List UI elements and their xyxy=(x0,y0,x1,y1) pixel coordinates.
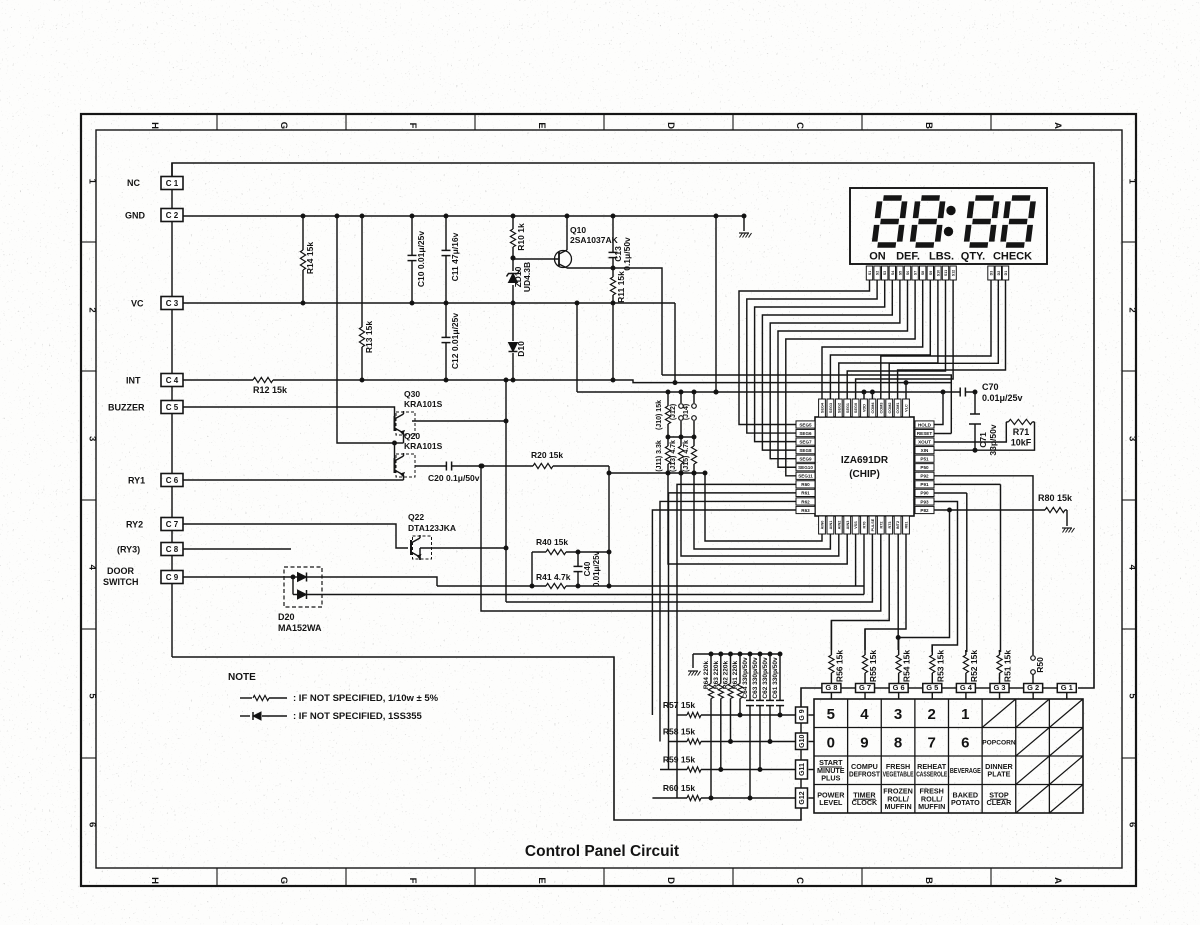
wire XT rail xyxy=(662,375,951,434)
label J12 xyxy=(670,404,677,420)
diode D20 bottom xyxy=(293,577,325,599)
wire S1 to SEG5 xyxy=(739,280,870,425)
keypad grid xyxy=(814,699,1083,813)
resistor R13 15k xyxy=(359,214,364,382)
wire BUZZER to Q30 xyxy=(183,407,395,416)
resistor R54 15k xyxy=(896,650,901,684)
wire VC drop to INT ext xyxy=(674,303,676,383)
label R61 220k xyxy=(732,661,739,690)
capacitor C11 xyxy=(442,214,451,305)
capacitor C63 330p xyxy=(756,654,764,770)
connector C3 xyxy=(161,297,183,310)
label C40 xyxy=(583,550,601,587)
label LBS. xyxy=(929,251,954,263)
resistor J10 15k xyxy=(665,392,670,437)
wire COM4 stub xyxy=(871,392,873,399)
ground R80 xyxy=(1062,528,1075,533)
label R14 15k xyxy=(305,242,315,274)
wire VC rail xyxy=(183,302,675,304)
key 9 xyxy=(860,734,868,751)
label R55 15k xyxy=(868,650,878,682)
wire Q22 to PULSE row xyxy=(505,421,507,602)
label R63 220k xyxy=(713,661,720,690)
capacitor C70 xyxy=(943,388,977,397)
label J10 xyxy=(656,400,663,430)
wire S3 to SEG7 xyxy=(755,280,885,442)
capacitor C10 xyxy=(408,214,417,305)
display digit 1 xyxy=(874,198,905,245)
ic IZA691DR body xyxy=(815,417,914,516)
label R12 15k xyxy=(253,385,288,395)
key 5 xyxy=(827,706,835,723)
label Q20 xyxy=(404,431,443,451)
wire INT rail extension xyxy=(613,380,951,385)
wire S2 to SEG6 xyxy=(747,280,877,433)
wire G4 grid stub xyxy=(965,693,967,700)
connector G5 xyxy=(923,683,942,693)
pin S10 xyxy=(935,266,941,280)
connector G8 xyxy=(822,683,841,693)
wire Q10 collector to rail xyxy=(613,268,662,375)
capacitor C71 xyxy=(969,392,981,452)
pin S4 xyxy=(889,266,895,280)
label J14 xyxy=(683,404,690,420)
ic top pins xyxy=(819,399,910,417)
resistor R52 15k xyxy=(963,650,968,684)
wire R81 row xyxy=(865,534,906,650)
ground GND rail end xyxy=(739,233,752,238)
key FRESH VEGETABLE xyxy=(883,762,914,779)
label C63 330p/50v xyxy=(752,657,759,699)
capacitor C12 xyxy=(442,303,451,382)
label QTY. xyxy=(961,251,985,263)
label D20 xyxy=(278,612,322,633)
pin S3 xyxy=(882,266,888,280)
wire R53 top xyxy=(931,645,933,650)
label R51 15k xyxy=(1003,650,1013,682)
capacitor C62 330p xyxy=(766,654,774,742)
wire R60 pin to row xyxy=(677,484,796,798)
capacitor C13 xyxy=(609,214,618,270)
pin S9 xyxy=(927,266,933,280)
wire R62 pin to row xyxy=(660,501,796,741)
ground array xyxy=(688,671,701,676)
wire D1 to COM1 xyxy=(898,280,1006,399)
key 1 xyxy=(961,706,969,723)
wire D20 bottom to R70 row xyxy=(325,594,864,596)
wire Q20 emitter to RY1 xyxy=(183,478,404,480)
connector C4 xyxy=(161,374,183,387)
key 3 xyxy=(894,706,902,723)
connector G7 xyxy=(856,683,875,693)
connector G10 xyxy=(796,733,808,750)
key STOP CLEAR xyxy=(987,790,1013,807)
resistor R53 15k xyxy=(930,650,935,684)
wire AIN1 xyxy=(692,471,830,549)
connector C2 xyxy=(161,209,183,222)
wire G1 grid stub xyxy=(1066,693,1068,700)
resistor R12 15k xyxy=(183,377,615,382)
label INT xyxy=(126,376,141,386)
wire array gnd stub xyxy=(692,654,694,668)
label CHECK xyxy=(993,251,1032,263)
resistor R11 15k xyxy=(610,268,615,380)
label R62 220k xyxy=(723,661,730,690)
label C62 330p/50v xyxy=(762,657,769,699)
key FRESH ROLL/ MUFFIN xyxy=(918,787,945,811)
pin S8 xyxy=(920,266,926,280)
pin S2 xyxy=(874,266,880,280)
wire VSS row xyxy=(578,584,864,588)
connector C5 xyxy=(161,401,183,414)
resistor R56 15k xyxy=(829,650,834,684)
wire VC to J rail xyxy=(575,301,579,392)
wire G2 grid stub xyxy=(1032,693,1034,700)
wire P82 to R54 xyxy=(896,510,949,640)
wire GND rail end stub xyxy=(742,214,746,231)
pin D2 xyxy=(995,266,1001,280)
wire S9 to SEG3 xyxy=(830,280,930,399)
wire D3 to COM3 xyxy=(881,280,991,399)
label R57 15k xyxy=(663,700,695,710)
display digit 2 xyxy=(912,198,943,245)
wire array top bus xyxy=(693,652,782,656)
wire R56 to R73 xyxy=(830,621,832,651)
label C71 xyxy=(978,424,998,455)
pin S5 xyxy=(897,266,903,280)
wire R55 to R81 xyxy=(864,629,866,650)
wire R54 top xyxy=(898,638,900,651)
border grid labels xyxy=(81,114,1138,886)
resistor R55 15k xyxy=(862,650,867,684)
label R80 15k xyxy=(1038,493,1073,503)
resistor J11 3.3k xyxy=(665,437,670,473)
label BUZZER xyxy=(108,403,145,413)
label Q30 xyxy=(404,389,443,409)
wire Q30 out xyxy=(412,378,508,423)
key 4 xyxy=(860,706,869,723)
label C64 330p/50v xyxy=(742,657,749,699)
wire S8 to SEG4 xyxy=(822,280,923,399)
diode D20 top xyxy=(291,573,325,582)
label C61 330p/50v xyxy=(772,657,779,699)
label R59 15k xyxy=(663,755,695,765)
pin S12 xyxy=(950,266,956,280)
wire HOLD xyxy=(934,392,943,425)
label C13 xyxy=(613,237,632,271)
label R53 15k xyxy=(935,650,945,682)
label R58 15k xyxy=(663,727,695,737)
wire G3 grid stub xyxy=(999,693,1001,700)
wire VDD stub xyxy=(863,392,865,399)
display digit 4 xyxy=(1003,198,1034,245)
capacitor C61 330p xyxy=(776,654,784,715)
wire G9-G10 link xyxy=(800,723,802,733)
connector C9 xyxy=(161,571,183,584)
resistor R61 220k xyxy=(737,654,742,715)
key 8 xyxy=(894,734,902,751)
label Q10 xyxy=(570,225,619,245)
wire G7 grid stub xyxy=(864,693,866,700)
note diode symbol xyxy=(240,712,287,720)
transistor Q20 KRA101S xyxy=(395,453,416,478)
pin S7 xyxy=(912,266,918,280)
wire G8 grid stub xyxy=(830,693,832,700)
wire C9 to D20 xyxy=(183,576,293,578)
label J15 xyxy=(683,440,690,472)
wire R51 top xyxy=(999,650,1001,652)
label NOTE xyxy=(228,672,256,683)
wire VLC stub xyxy=(905,383,907,399)
label R11 15k xyxy=(616,271,626,303)
connector G6 xyxy=(889,683,908,693)
wire S6 to SEG10 xyxy=(778,280,908,467)
key REHEAT CASSEROLE xyxy=(916,762,947,779)
wire AIN0 xyxy=(703,471,822,541)
connector G3 xyxy=(990,683,1009,693)
label R50 xyxy=(1035,657,1045,673)
resistor J13 4.7k xyxy=(678,437,683,473)
wire PULSE row xyxy=(506,534,872,602)
label R40 15k xyxy=(536,537,568,547)
label DOOR SWITCH xyxy=(103,566,139,587)
label C10 xyxy=(416,231,426,288)
label R64 220k xyxy=(703,661,710,690)
display box xyxy=(850,188,1047,264)
label R20 15k xyxy=(531,450,563,460)
wire R73 row xyxy=(831,534,889,650)
key COMPU DEFROST xyxy=(849,762,881,779)
title Control Panel Circuit xyxy=(525,843,679,860)
label GND xyxy=(125,211,146,221)
resistor R64 220k xyxy=(708,654,713,798)
label R41 4.7k xyxy=(536,572,571,582)
resistor R40 15k xyxy=(532,549,611,586)
diode D10 xyxy=(509,303,518,382)
label R56 15k xyxy=(834,650,844,682)
wire AIN3 xyxy=(666,471,847,564)
wire P92 to G2 xyxy=(934,476,1033,655)
wire bottom bus xyxy=(172,657,801,820)
label J11 xyxy=(656,440,663,472)
pin S1 xyxy=(866,266,872,280)
zener ZD10 xyxy=(507,256,520,305)
connector C6 xyxy=(161,474,183,487)
connector C7 xyxy=(161,518,183,531)
wire S5 to SEG9 xyxy=(770,280,900,459)
wire G9-G12 grid stubs xyxy=(809,715,815,798)
wire R61 pin to row xyxy=(669,493,797,770)
label R13 15k xyxy=(364,321,374,353)
capacitor C20 xyxy=(415,462,484,471)
border outer frame xyxy=(81,114,1136,886)
keypad blank diagonals xyxy=(982,699,1083,813)
key POPCORN xyxy=(982,739,1016,746)
label C11 xyxy=(450,232,460,281)
key START MINUTE PLUS xyxy=(817,758,845,782)
wire G6 grid stub xyxy=(898,693,900,700)
connector G4 xyxy=(956,683,975,693)
wire RY2 to Q22 base xyxy=(183,524,408,548)
resistor J15 4.7k xyxy=(691,437,696,473)
jumper J14 open xyxy=(692,392,697,437)
resistor R14 15k xyxy=(300,214,305,305)
wire J bottom rail xyxy=(609,471,705,475)
wire RY3 stub xyxy=(183,548,291,550)
label DEF. xyxy=(896,251,920,263)
wire GND to COM rail xyxy=(714,214,718,394)
ic bottom pins xyxy=(819,516,910,534)
label Q22 xyxy=(408,512,456,533)
wire D20 top to R41 row xyxy=(325,577,437,586)
label VC xyxy=(131,299,144,309)
label ZD10 UD4.3B xyxy=(513,262,532,292)
connector C8 xyxy=(161,543,183,556)
jumper R50 open xyxy=(1031,656,1036,684)
wire Q22 out xyxy=(420,546,508,560)
wire G10-G11 link xyxy=(800,750,802,761)
ic left pins xyxy=(796,421,815,514)
wire Q20 base xyxy=(394,443,396,458)
key 7 xyxy=(928,734,936,751)
resistor R51 15k xyxy=(997,650,1002,684)
resistor R62 220k xyxy=(728,654,733,742)
label (RY3) xyxy=(117,545,140,555)
wire G11-G12 link xyxy=(800,779,802,788)
resistor R60 15k row xyxy=(652,795,795,800)
transistor Q30 KRA101S xyxy=(395,411,416,436)
connector G1 xyxy=(1057,683,1076,693)
label D10 xyxy=(516,341,526,357)
label RY2 xyxy=(126,520,143,530)
ic right pins xyxy=(915,421,934,514)
wire P82 row xyxy=(934,508,1045,512)
wire R72 row xyxy=(479,464,881,611)
wire R52 top xyxy=(965,650,967,652)
wire COM/J rail xyxy=(577,390,945,394)
label C70 xyxy=(982,382,1023,403)
label NC xyxy=(127,178,140,188)
wire S12 to SEG0 xyxy=(856,280,954,399)
label R71 10kF xyxy=(1011,427,1032,448)
note resistor text xyxy=(293,693,439,704)
wire RESET xyxy=(934,433,951,435)
resistor R80 15k xyxy=(1045,507,1067,526)
label J13 xyxy=(670,440,677,472)
transistor Q10 2SA1037AK xyxy=(511,214,613,268)
label RY1 xyxy=(128,476,145,486)
wire S7 to SEG11 xyxy=(786,280,915,476)
label R10 1k xyxy=(516,223,526,251)
wire AIN2 xyxy=(679,471,839,556)
key FROZEN ROLL/ MUFFIN xyxy=(883,787,913,811)
key 2 xyxy=(928,706,936,723)
note resistor symbol xyxy=(240,695,287,700)
resistor R20 15k xyxy=(482,463,609,468)
wire S4 to SEG8 xyxy=(762,280,892,450)
wire R63 pin to row xyxy=(652,510,796,715)
wire J rail drop xyxy=(607,466,611,586)
connector C1 xyxy=(161,177,183,190)
resistor R59 15k row xyxy=(660,767,796,772)
display digit 3 xyxy=(966,198,997,245)
pin S6 xyxy=(904,266,910,280)
label IZA691DR xyxy=(841,455,889,480)
connector G12 xyxy=(796,788,808,808)
pin D3 xyxy=(988,266,994,280)
key TIMER CLOCK xyxy=(852,790,878,807)
resistor R10 1k xyxy=(510,214,515,258)
wire P93 to G5 xyxy=(932,502,957,653)
resistor R57 15k row xyxy=(677,712,796,717)
key BEVERAGE xyxy=(950,766,981,775)
wire P90 to G4 xyxy=(934,493,967,652)
label C20 xyxy=(428,473,480,483)
wire GND rail xyxy=(183,215,744,217)
pin D1 xyxy=(1002,266,1008,280)
connector G9 xyxy=(796,707,808,723)
label R54 15k xyxy=(902,650,912,682)
wire S10 to SEG2 xyxy=(839,280,938,399)
wire J mid rail xyxy=(666,435,696,439)
key BAKED POTATO xyxy=(951,790,980,807)
resistor R71 10kF xyxy=(934,419,1035,450)
wire VSS row xyxy=(855,534,857,586)
resistor R63 220k xyxy=(718,654,723,770)
wire S11 to SEG1 xyxy=(847,280,945,399)
label R52 15k xyxy=(969,650,979,682)
key 6 xyxy=(961,734,969,751)
capacitor C40 xyxy=(574,552,583,586)
wire P91 to G3 xyxy=(934,484,1001,652)
wire top bus C1 to right xyxy=(172,163,1094,688)
wire connector column bus xyxy=(171,163,173,657)
resistor R58 15k row xyxy=(669,739,796,744)
wire G row links xyxy=(841,687,1057,689)
pin S11 xyxy=(942,266,948,280)
jumper J12 open xyxy=(679,392,684,437)
wire INT2 to R54 xyxy=(897,534,899,650)
transistor Q22 DTA123JKA xyxy=(411,535,432,560)
wire Q30 emitter junction xyxy=(335,214,404,445)
label ON xyxy=(869,251,886,263)
diode D20 dashed box xyxy=(284,567,322,607)
label C12 xyxy=(450,313,460,370)
key DINNER PLATE xyxy=(985,762,1013,779)
resistor R41 4.7k xyxy=(437,583,580,588)
border inner frame xyxy=(96,130,1122,868)
display colon xyxy=(944,206,955,235)
wire D2 to COM2 xyxy=(889,280,998,399)
capacitor C64 330p xyxy=(746,654,754,798)
connector G11 xyxy=(796,760,808,779)
key 0 xyxy=(827,734,835,751)
wire G5 grid stub xyxy=(931,693,933,700)
key POWER LEVEL xyxy=(817,790,845,807)
wire G8-G9 link xyxy=(801,688,822,707)
connector G2 xyxy=(1024,683,1043,693)
junction dots keypad rows xyxy=(709,713,782,800)
note diode text xyxy=(293,711,423,722)
wire R70 row xyxy=(863,534,865,595)
label R60 15k xyxy=(663,783,695,793)
